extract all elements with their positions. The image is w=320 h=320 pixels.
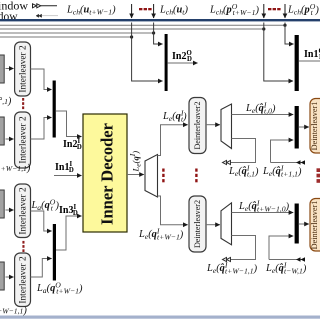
red dashes mid column 1 (162, 169, 164, 183)
wire next window into bar C2 (filled arrows) (271, 140, 294, 163)
svg-text:Interleaver 2: Interleaver 2 (19, 45, 29, 93)
wire drop arrow Lch(p_t+W-1) (263, 4, 265, 18)
legend symbol next window (filled double arrowheads) (36, 14, 58, 17)
interleaver I1 (15, 42, 31, 96)
wire I3 output to bar B (31, 211, 52, 231)
svg-text:Deinterleaver1: Deinterleaver1 (310, 201, 319, 250)
wire T3 top output to bar C3 (232, 212, 294, 214)
wire In1 inner input (54, 175, 82, 177)
bus line L4 (0, 36, 132, 38)
wire inner decoder output (127, 174, 144, 176)
junction node L4/u_t+W-1 (130, 35, 133, 38)
legend symbol current window (open double arrowheads) (33, 4, 58, 8)
wire deint2 upper to T2 (206, 124, 220, 126)
wire I2 output to bar A (31, 118, 52, 140)
svg-text:Le(qIt): Le(qIt) (162, 108, 187, 123)
open double arrowheads left lower (223, 257, 231, 261)
svg-text:In2OD: In2OD (172, 50, 192, 63)
red dashes between I3 I4 (22, 241, 24, 252)
wire bar B to inner decoder In3 (56, 216, 82, 250)
wire I1 output to bar A (31, 69, 52, 90)
open double arrowheads left upper (223, 160, 231, 164)
wire drop arrow Lch(u_t) (153, 4, 155, 18)
bus line L1 (0, 24, 285, 26)
outer decoder port box 2 (cropped) (0, 117, 4, 145)
svg-text:Lch(ut): Lch(ut) (159, 4, 188, 16)
demux trapezoid T2 (221, 104, 232, 149)
wire drop arrow Lch(u_t+W-1) (131, 4, 133, 18)
svg-text:°,1): °,1) (0, 96, 12, 107)
wire T2 top output to bar C2 (232, 114, 294, 116)
junction node L3/u_t (152, 31, 155, 34)
wire into I4 (6, 276, 14, 278)
window boundary bus (light) bottom (0, 316, 320, 319)
demux trapezoid T3 (221, 203, 232, 245)
interleaver I4 (15, 253, 31, 307)
outer decoder port box 3 (cropped) (0, 190, 4, 218)
wire T1 top fan to deinterleaver2 upper (158, 125, 188, 156)
wire bar A to inner decoder In2 (56, 111, 82, 137)
junction node L1/p_t (283, 24, 286, 27)
svg-text:Deinterleaver2: Deinterleaver2 (193, 200, 202, 248)
merge bar D (In2 outer) (165, 34, 168, 91)
wire In1 outer output (299, 60, 320, 62)
svg-text:Le(q̂It,1): Le(q̂It,1) (228, 163, 259, 178)
deinterleaver2 upper (189, 98, 206, 154)
svg-text:Lch(pOt): Lch(pOt) (287, 2, 319, 17)
interleaver I2 (15, 112, 31, 168)
outer decoder port box 1 (cropped) (0, 55, 4, 83)
wire T3 bottom fan to prev window (open arrows) (231, 236, 256, 260)
svg-text:−W−1,1): −W−1,1) (0, 306, 27, 317)
feedback line with filled double arrowheads upper (271, 162, 305, 164)
bus line L2 (0, 28, 264, 30)
feedback line with filled double arrowheads lower (269, 259, 305, 261)
red ellipsis dashes top right (268, 8, 281, 10)
wire T1 bottom fan to deinterleaver2 lower (158, 196, 188, 225)
svg-text:Le(qI): Le(qI) (128, 151, 142, 173)
wire into I3 (6, 209, 14, 211)
junction node L2/p_t+W-1 (262, 27, 265, 30)
svg-text:Interleaver 2: Interleaver 2 (19, 256, 29, 304)
red ellipsis dashes top left (139, 8, 152, 10)
wire into I2 (6, 138, 14, 140)
svg-text:In3ID: In3ID (59, 204, 78, 217)
red dashes right column (317, 168, 320, 183)
svg-text:Le(q̂It,0): Le(q̂It,0) (245, 100, 276, 115)
svg-text:In1ID: In1ID (55, 161, 74, 174)
svg-text:La(qOt): La(qOt) (31, 197, 60, 212)
deinterleaver1 lower (cropped) (310, 199, 320, 252)
svg-text:In2ID: In2ID (63, 138, 82, 151)
red dashes between I1 I2 (22, 98, 24, 109)
wire next window into bar C3 (filled arrows) (269, 236, 293, 260)
merge bar C2 (295, 106, 299, 149)
wire T2 bottom fan to prev window (open arrows) (231, 139, 256, 163)
svg-text:Inner Decoder: Inner Decoder (98, 123, 117, 225)
wire into I1 (6, 68, 14, 70)
inner decoder U1 (83, 114, 127, 232)
deinterleaver2 lower (189, 196, 206, 252)
bus line L3 (0, 32, 154, 34)
svg-text:Interleaver 2: Interleaver 2 (19, 187, 29, 235)
wire p_t+W-1 down to bar C (264, 23, 293, 82)
svg-text:In1OD: In1OD (304, 48, 320, 61)
svg-text:Deinterleaver1: Deinterleaver1 (310, 102, 319, 151)
svg-text:Deinterleaver2: Deinterleaver2 (193, 101, 202, 149)
wire drop arrow Lch(p_t) (284, 4, 286, 18)
merge bar B (53, 224, 56, 281)
svg-text:+W−1,1): +W−1,1) (1, 163, 31, 174)
deinterleaver1 upper (cropped) (310, 99, 320, 154)
wire bar C2 to deinterleaver1 upper (299, 126, 309, 128)
wire p_t down to bar C (285, 23, 294, 45)
wire u_t+W-1 down to bar D (132, 23, 163, 82)
merge bar C (In1 outer) (295, 35, 299, 91)
wire deint2 lower to T3 (206, 224, 220, 226)
window boundary bus (navy) top (0, 19, 320, 21)
merge bar A (53, 81, 56, 138)
red dashes mid column 2 (195, 169, 197, 183)
outer decoder port box 4 (cropped) (0, 262, 4, 290)
wire In2 outer output (168, 62, 198, 64)
interleaver I3 (15, 184, 31, 238)
merge bar C3 (295, 204, 299, 244)
wire I4 output to bar B (31, 259, 52, 278)
svg-text:Interleaver 2: Interleaver 2 (19, 116, 29, 164)
wire u_t down to bar D (154, 23, 163, 45)
wire bar C3 to deinterleaver1 lower (299, 223, 309, 225)
demux trapezoid T1 (145, 155, 158, 198)
